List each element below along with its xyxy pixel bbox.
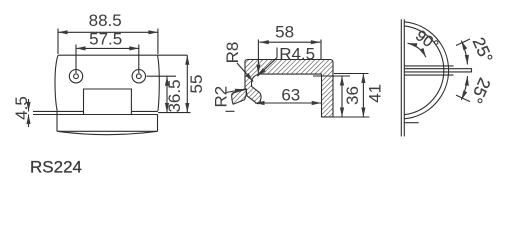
svg-text:90°: 90° bbox=[412, 27, 441, 54]
svg-text:25°: 25° bbox=[469, 34, 497, 65]
svg-text:55: 55 bbox=[187, 75, 206, 94]
svg-text:41: 41 bbox=[366, 84, 385, 103]
svg-text:88.5: 88.5 bbox=[89, 11, 122, 30]
svg-text:36: 36 bbox=[343, 86, 362, 105]
svg-text:R8: R8 bbox=[223, 42, 242, 64]
svg-text:R4.5: R4.5 bbox=[279, 44, 315, 63]
svg-text:4.5: 4.5 bbox=[12, 96, 31, 120]
svg-text:36.5: 36.5 bbox=[165, 79, 184, 112]
svg-text:RS224: RS224 bbox=[30, 158, 82, 177]
svg-text:25°: 25° bbox=[466, 75, 494, 106]
svg-text:63: 63 bbox=[281, 86, 300, 105]
svg-text:R2: R2 bbox=[212, 86, 231, 108]
svg-text:57.5: 57.5 bbox=[89, 29, 122, 48]
svg-text:58: 58 bbox=[275, 22, 294, 41]
